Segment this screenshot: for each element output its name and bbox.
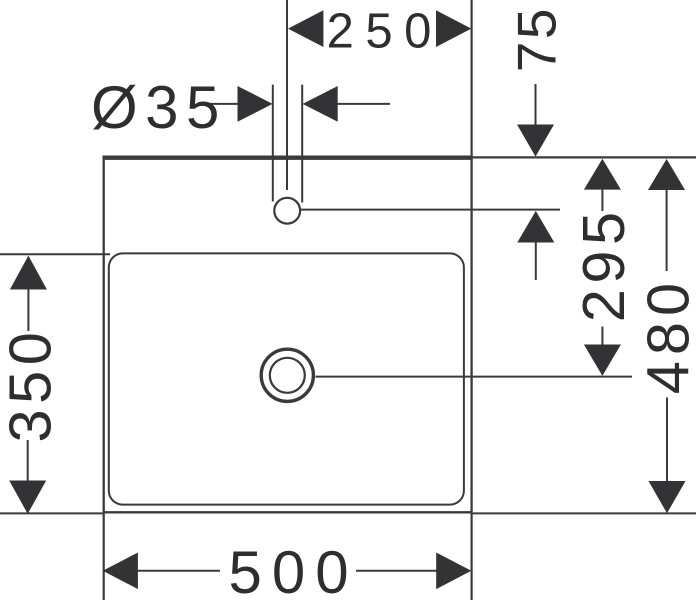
svg-text:500: 500 <box>229 539 359 600</box>
svg-text:480: 480 <box>635 277 696 394</box>
dia35 left extension line <box>272 85 274 202</box>
svg-text:75: 75 <box>506 6 568 72</box>
295 down arrowhead <box>584 345 621 376</box>
dia35 right leader <box>336 103 390 105</box>
inner bowl rounded rectangle <box>109 253 464 504</box>
bottom extension line right <box>472 512 696 514</box>
top rim extension line to right edge <box>472 156 696 158</box>
washbasin outer outline left/bottom/right edges <box>103 159 472 512</box>
drain inner circle <box>270 358 305 393</box>
75 lower stem <box>535 242 537 280</box>
500 left extension line below basin <box>103 513 105 600</box>
350 up arrowhead <box>10 256 47 290</box>
480 down arrowhead <box>649 481 686 513</box>
svg-text:250: 250 <box>327 5 443 59</box>
center extension line for 250 dimension <box>286 0 288 190</box>
480 lower stem <box>666 398 668 483</box>
480 up arrowhead <box>648 159 685 190</box>
svg-text:295: 295 <box>570 206 637 322</box>
480 upper stem <box>666 189 668 271</box>
svg-text:Ø35: Ø35 <box>91 74 227 141</box>
295 up arrowhead <box>584 159 621 190</box>
500 right extension line below basin <box>471 513 473 600</box>
dia35 right extension line <box>301 85 303 203</box>
drain outer circle <box>261 349 313 401</box>
350 upper stem <box>27 289 29 332</box>
faucet hole circle <box>274 198 300 224</box>
250 right arrowhead <box>436 10 471 47</box>
dia35 left leader <box>211 103 240 105</box>
500 left arrowhead <box>103 553 138 590</box>
500 dimension line left segment <box>137 570 220 572</box>
drain leader line right <box>316 376 633 378</box>
dia35 left arrowhead <box>238 86 273 122</box>
bottom extension line left <box>0 512 103 514</box>
350 lower stem <box>27 440 29 482</box>
faucet hole leader line right <box>301 209 560 211</box>
295 lower stem <box>601 327 603 347</box>
500 dimension line right segment <box>356 570 438 572</box>
350 down arrowhead <box>9 481 46 514</box>
75 upper stem <box>535 84 537 126</box>
500 right arrowhead <box>436 553 471 590</box>
75 down arrowhead <box>517 125 554 157</box>
washbasin top rim thick edge <box>103 155 473 159</box>
75 up arrowhead <box>517 211 554 243</box>
250 left arrowhead <box>288 10 323 47</box>
dia35 right arrowhead <box>303 86 338 122</box>
svg-text:350: 350 <box>0 327 64 443</box>
right edge extension line above basin for 250 dimension <box>471 0 473 157</box>
bowl top extension line left <box>0 253 110 255</box>
295 upper stem <box>601 189 603 211</box>
